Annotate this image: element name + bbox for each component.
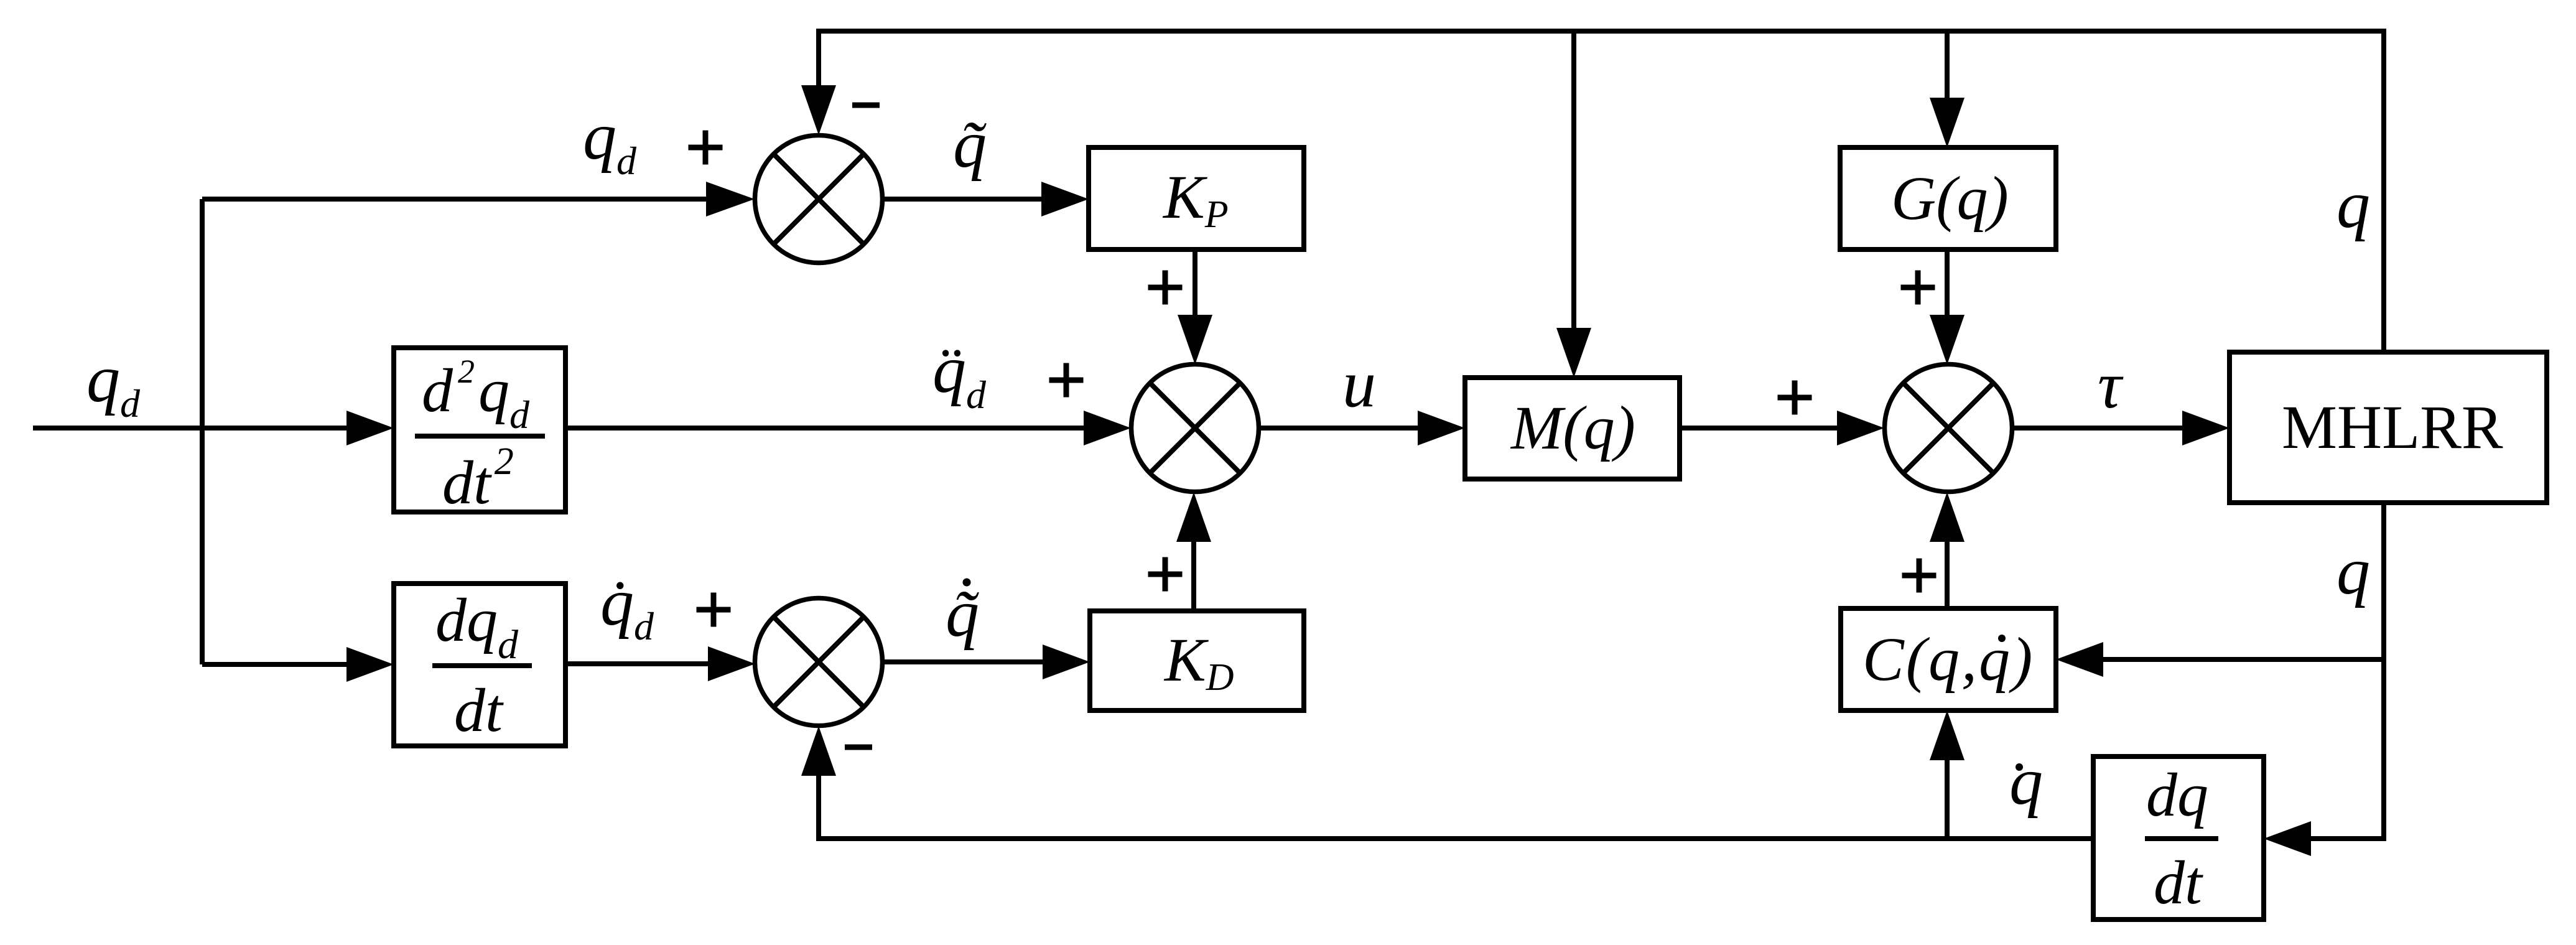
svg-text:q: q — [2337, 534, 2370, 608]
svg-text:dq: dq — [2146, 760, 2208, 829]
svg-text:q̃: q̃ — [946, 577, 979, 651]
svg-text:dqd: dqd — [435, 585, 519, 668]
svg-text:qd: qd — [583, 100, 637, 183]
svg-text:d2qd: d2qd — [422, 353, 530, 437]
svg-text:q̇d: q̇d — [600, 566, 654, 648]
svg-text:qd: qd — [86, 342, 141, 426]
svg-text:τ: τ — [2098, 349, 2124, 422]
svg-text:u: u — [1342, 347, 1376, 421]
svg-text:q: q — [2009, 745, 2043, 819]
svg-text:dt: dt — [454, 676, 504, 745]
svg-text:q: q — [2337, 168, 2370, 242]
svg-text:q̈d: q̈d — [932, 333, 987, 417]
svg-text:M(q): M(q) — [1510, 393, 1635, 462]
svg-text:dt2: dt2 — [442, 440, 514, 517]
svg-text:dt: dt — [2154, 848, 2203, 917]
svg-text:MHLRR: MHLRR — [2282, 393, 2503, 462]
svg-text:KP: KP — [1162, 162, 1229, 236]
svg-text:C(q,q): C(q,q) — [1862, 625, 2034, 694]
svg-text:G(q): G(q) — [1891, 164, 2009, 233]
svg-text:q̃: q̃ — [953, 108, 987, 182]
svg-text:KD: KD — [1163, 625, 1234, 699]
